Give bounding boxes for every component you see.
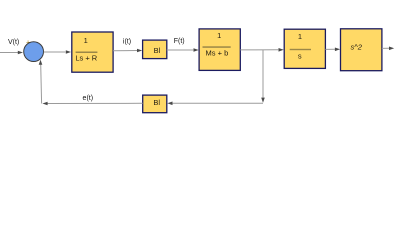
wire block 1/s to block s^2	[325, 48, 335, 50]
svg-text:s: s	[298, 52, 302, 61]
block G3 1/s	[284, 29, 325, 68]
block G2 1/(Ms+b)	[199, 29, 240, 71]
svg-text:V(t): V(t)	[8, 39, 19, 46]
svg-text:s^2: s^2	[350, 42, 362, 51]
svg-text:1: 1	[298, 32, 302, 41]
wire summing junction to block 1/(Ls+R)	[44, 51, 66, 53]
wire corner up to summing junction	[40, 64, 43, 104]
summing junction	[24, 42, 44, 62]
svg-text:1: 1	[84, 36, 88, 45]
wire block Bl to block 1/(Ms+b)	[167, 49, 194, 51]
block Bl (feedback)	[143, 95, 167, 113]
svg-text:1: 1	[217, 31, 221, 40]
wire block 1/(Ms+b) to block 1/s	[240, 49, 278, 51]
wire input V(t)	[0, 52, 19, 54]
svg-text:Bl: Bl	[154, 46, 161, 55]
svg-text:e(t): e(t)	[83, 95, 94, 102]
svg-text:Ls + R: Ls + R	[75, 53, 97, 62]
svg-text:F(t): F(t)	[174, 38, 185, 45]
node branch (pick-off point) wire down	[262, 50, 264, 98]
svg-text:Bl: Bl	[153, 98, 160, 107]
block Bl (forward)	[143, 40, 167, 59]
block G4 s^2	[341, 29, 382, 71]
wire feedback branch to block Bl (feedback)	[173, 102, 264, 104]
svg-text:Ms + b: Ms + b	[206, 49, 229, 58]
wire block G1 to block Bl	[113, 50, 137, 52]
wire block Bl (feedback) to corner	[48, 102, 143, 104]
block G1 1/(Ls+R)	[72, 32, 113, 72]
wire output of s^2	[382, 47, 389, 49]
svg-text:i(t): i(t)	[123, 38, 131, 45]
